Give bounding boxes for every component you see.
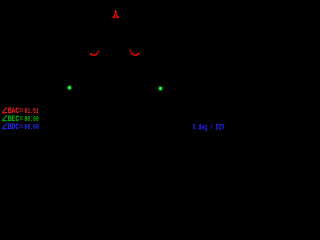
- svg-text:90.00: 90.00: [25, 124, 40, 132]
- point B (green, lower left): [68, 86, 72, 90]
- angle marker at A (double arc ticks below vertex): [112, 14, 119, 17]
- measurement 3: angle BDC = 90.00 (blue): [2, 123, 39, 132]
- measurement 1: angle BAC = 61.51 (red): [2, 107, 39, 116]
- measurement 2: angle BEC = 90.00 (green): [2, 115, 39, 124]
- svg-text:X deg / DIV: X deg / DIV: [193, 123, 225, 133]
- svg-text:61.51: 61.51: [25, 108, 40, 116]
- point C (green, lower right): [159, 87, 163, 91]
- point A (red vertex marker, top center): [115, 10, 117, 14]
- angle marker at D (left red arc with tick): [90, 50, 99, 55]
- svg-text:90.00: 90.00: [25, 116, 40, 124]
- scale label bottom right (blue): [193, 123, 225, 133]
- angle marker at E (right red arc with tick): [130, 50, 139, 55]
- svg-text:BDC=: BDC=: [8, 123, 24, 132]
